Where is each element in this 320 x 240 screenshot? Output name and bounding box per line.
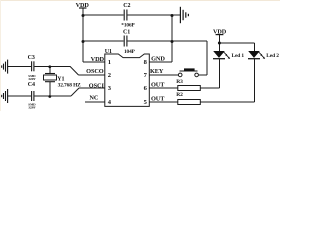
- capacitor C2: [124, 10, 127, 21]
- wire ground3 to C4: [8, 95, 31, 97]
- svg-text:1: 1: [108, 59, 111, 66]
- wire OSCO to pin2: [79, 74, 105, 76]
- svg-text:OUT: OUT: [151, 81, 165, 88]
- switch KEY button: [178, 68, 198, 76]
- svg-text:GND: GND: [151, 55, 165, 62]
- wire LED1 cathode down: [218, 59, 220, 88]
- svg-text:NC: NC: [89, 95, 98, 102]
- wire mid rail to C1: [83, 40, 124, 42]
- wire C4 to crystal node: [35, 95, 72, 97]
- ground (left, OSCI side): [2, 89, 8, 103]
- svg-text:U1: U1: [105, 49, 112, 55]
- wire OSCI to pin3: [79, 87, 105, 89]
- wire VDD2 stem: [218, 35, 220, 52]
- wire VDD rail vertical: [82, 8, 84, 62]
- svg-text:VDD: VDD: [76, 2, 90, 9]
- svg-text:32.768 HZ: 32.768 HZ: [58, 82, 82, 88]
- svg-text:*106P: *106P: [121, 23, 135, 29]
- svg-text:C1: C1: [123, 30, 130, 36]
- svg-text:KEY: KEY: [150, 68, 164, 75]
- wire R2 to LED2: [200, 101, 254, 103]
- wire pin5 OUT to R2: [149, 101, 178, 103]
- wire OSCO diagonal: [70, 67, 78, 75]
- wire top rail VDD to C2: [83, 14, 124, 16]
- crystal Y1: [44, 67, 57, 96]
- capacitor C1: [124, 36, 127, 47]
- svg-text:OUT: OUT: [151, 95, 165, 102]
- svg-text:C3: C3: [28, 55, 35, 61]
- svg-text:32PF: 32PF: [28, 77, 35, 81]
- svg-text:Led 1: Led 1: [232, 53, 245, 59]
- wire switch right vertical: [206, 41, 208, 75]
- svg-text:VDD: VDD: [91, 56, 105, 63]
- svg-text:R2: R2: [176, 92, 183, 98]
- resistor R2: [178, 100, 201, 105]
- junction VDD rail / top rail: [82, 14, 85, 17]
- LED Led2: [248, 51, 265, 59]
- capacitor C4: [32, 91, 34, 101]
- wire C2 to ground junction: [128, 14, 181, 16]
- wire switch to right drop: [198, 74, 207, 76]
- VDD symbol (left): [79, 7, 87, 9]
- junction VDD2 / LED rail: [218, 42, 221, 45]
- wire ground2 to C3: [8, 66, 31, 68]
- wire pin7 KEY to switch: [149, 74, 178, 76]
- svg-text:2: 2: [108, 72, 111, 79]
- wire LED2 top drop: [253, 43, 255, 51]
- junction crystal bottom node: [48, 95, 51, 98]
- wire pin8 GND to rail: [149, 61, 172, 63]
- svg-text:104P: 104P: [124, 49, 136, 55]
- ground (left, OSCO side): [2, 60, 8, 74]
- svg-text:32PF: 32PF: [28, 105, 35, 109]
- junction crystal top node: [48, 65, 51, 68]
- svg-text:VDD: VDD: [213, 29, 227, 36]
- wire ground rail vertical: [171, 15, 173, 62]
- svg-text:C2: C2: [123, 3, 130, 9]
- svg-text:R3: R3: [176, 79, 183, 85]
- svg-text:OSCO: OSCO: [86, 68, 104, 75]
- wire R3 to LED1: [200, 87, 219, 89]
- LED Led1: [213, 51, 230, 59]
- wire LED rail: [219, 42, 254, 44]
- svg-text:C4: C4: [28, 82, 35, 88]
- border frame: [0, 0, 280, 111]
- IC U1 box with notch: [105, 54, 150, 106]
- VDD symbol (right/LED): [216, 34, 224, 36]
- svg-text:OSCI: OSCI: [89, 82, 105, 89]
- ground (top right): [180, 7, 188, 23]
- wire OSCI diagonal: [71, 88, 79, 96]
- wire pin6 OUT to R3: [149, 87, 178, 89]
- wire C3 to crystal node: [35, 66, 71, 68]
- capacitor C3: [32, 61, 34, 71]
- junction ground rail / top rail: [171, 14, 174, 17]
- junction VDD rail / C1 rail: [82, 40, 85, 43]
- wire C1 to switch drop: [128, 40, 208, 42]
- junction ground rail / C1 rail: [171, 40, 174, 43]
- resistor R3: [178, 86, 201, 91]
- svg-text:Led 2: Led 2: [266, 53, 279, 59]
- wire pin4 NC stub: [85, 101, 105, 103]
- wire LED2 cathode down: [253, 59, 255, 102]
- wire pin1 VDD: [83, 61, 105, 63]
